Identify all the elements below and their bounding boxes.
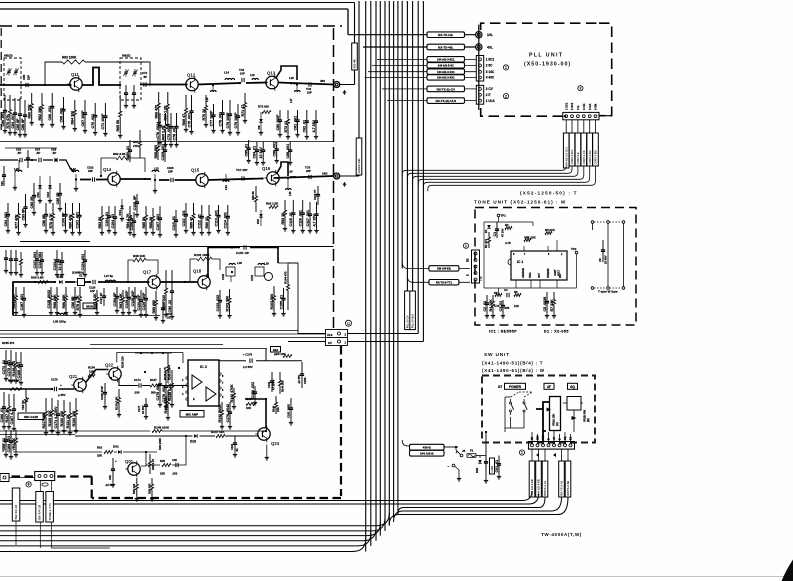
svg-text:.5P: .5P bbox=[52, 151, 56, 155]
svg-text:C115 .01: C115 .01 bbox=[289, 212, 293, 226]
svg-text:RX/TX-2-3B: RX/TX-2-3B bbox=[566, 481, 570, 496]
svg-text:R138 5.6K: R138 5.6K bbox=[168, 383, 172, 401]
svg-text:C01: C01 bbox=[108, 475, 112, 480]
transistor Q16 bbox=[262, 166, 279, 186]
svg-text:+ C178: + C178 bbox=[243, 353, 253, 357]
svg-text:144 A/2-3-8C1: 144 A/2-3-8C1 bbox=[437, 58, 455, 62]
IC3 opamp 1 bbox=[192, 375, 202, 389]
resistor R5 91K bbox=[545, 232, 552, 235]
capacitor row A 9 bbox=[124, 85, 128, 108]
diode DD1 bbox=[478, 460, 482, 463]
svg-text:C1: C1 bbox=[493, 232, 497, 237]
svg-text:6: 6 bbox=[548, 253, 550, 256]
svg-text:C101 .001: C101 .001 bbox=[75, 212, 79, 229]
resistor R91 68 bbox=[255, 186, 258, 212]
wire IC3 out bbox=[221, 387, 245, 406]
svg-text:10K: 10K bbox=[276, 407, 280, 412]
ground 486 bbox=[484, 478, 488, 483]
wire D18 line bbox=[75, 435, 259, 437]
svg-text:.22 50V: .22 50V bbox=[105, 483, 114, 487]
R63 feedback wire bbox=[45, 62, 150, 85]
wire bus vertical 4 bbox=[370, 1, 372, 546]
svg-text:3 E: 3 E bbox=[576, 106, 580, 110]
coil L25 bbox=[286, 189, 292, 190]
wire SW pin down 4 bbox=[561, 449, 563, 461]
svg-text:(B): (B) bbox=[586, 418, 590, 422]
svg-text:R7 33K: R7 33K bbox=[550, 299, 554, 312]
label BE1 box bbox=[271, 347, 281, 353]
test point TP1 bbox=[497, 214, 500, 217]
resistor R83 56 bbox=[98, 206, 104, 235]
wire to PLL pin 1 bbox=[377, 58, 476, 60]
capacitor C110 .01 bbox=[172, 210, 178, 237]
svg-text:C76 .001: C76 .001 bbox=[156, 124, 160, 139]
J5 plus terminal bbox=[460, 454, 463, 457]
SW connector pin 8 bbox=[569, 444, 572, 447]
svg-text:CONT: CONT bbox=[555, 269, 557, 276]
capacitor C84 .01 bbox=[253, 142, 259, 165]
svg-text:C4: C4 bbox=[504, 288, 508, 292]
svg-text:PLL-2-UL8: PLL-2-UL8 bbox=[411, 314, 415, 328]
svg-text:R79 4.7K: R79 4.7K bbox=[76, 295, 80, 311]
svg-text:4.7 25V: 4.7 25V bbox=[312, 120, 316, 133]
coil L16 bbox=[252, 78, 258, 80]
wire bottom bus line 5 bbox=[0, 518, 385, 531]
row B upper wire bbox=[0, 160, 70, 168]
svg-text:R01 2.7K: R01 2.7K bbox=[151, 459, 155, 470]
svg-text:R99 680: R99 680 bbox=[152, 300, 156, 314]
transistor Q21 bbox=[69, 374, 86, 393]
coax jack 14L bbox=[476, 32, 482, 38]
svg-text:Q01: Q01 bbox=[125, 459, 134, 464]
svg-text:10P: 10P bbox=[307, 91, 312, 95]
svg-text:R69 2.7K: R69 2.7K bbox=[161, 125, 165, 141]
svg-text:C2 .01: C2 .01 bbox=[483, 301, 487, 312]
diode D18 bbox=[194, 434, 197, 438]
capacitor C62 .01 bbox=[303, 110, 309, 139]
svg-text:10 16V: 10 16V bbox=[259, 147, 263, 159]
cap C4 .055 bbox=[507, 293, 509, 297]
svg-text:Q15: Q15 bbox=[191, 168, 200, 173]
SW connector pin 5 bbox=[553, 444, 556, 447]
svg-text:Q23: Q23 bbox=[271, 441, 280, 446]
svg-text:C170: C170 bbox=[51, 378, 58, 382]
wire SW label 3 to bus bbox=[398, 497, 545, 514]
wire bottom bus line 2 bbox=[0, 533, 371, 546]
svg-text:R96 39K: R96 39K bbox=[62, 294, 66, 309]
cap C183 .22 35V bbox=[300, 362, 304, 388]
svg-text:C62 .01: C62 .01 bbox=[303, 120, 307, 133]
Q13 collector jog bbox=[276, 66, 298, 80]
resistor R1 272 bbox=[488, 232, 491, 248]
vertical label CONT-1-CK bbox=[581, 133, 587, 166]
vertical label PLL-2-UL8 bbox=[410, 291, 416, 330]
svg-text:CONT-1-5C1: CONT-1-5C1 bbox=[570, 149, 574, 165]
transistor Q12 bbox=[183, 72, 198, 92]
svg-text:J5: J5 bbox=[462, 449, 466, 453]
corner logo blob bbox=[782, 560, 793, 581]
cap C65 22P bbox=[26, 83, 28, 87]
capacitor row A 10 bbox=[132, 85, 136, 108]
PLL bottom pin 3 bbox=[577, 115, 580, 118]
cap C108 18P bbox=[171, 178, 173, 182]
resistor R85 39 bbox=[149, 208, 155, 235]
wire PLL pin 4 down bbox=[583, 120, 585, 133]
left column top cols bbox=[1, 95, 7, 133]
cap TC8 20P bbox=[309, 175, 311, 179]
diode D01 bbox=[118, 450, 121, 454]
svg-text:.5P: .5P bbox=[36, 151, 40, 155]
svg-text:2.2 50V: 2.2 50V bbox=[243, 365, 253, 369]
svg-text:4 43C: 4 43C bbox=[486, 76, 495, 80]
resistor R95 6.8K bbox=[38, 281, 48, 284]
svg-text:C110 .01: C110 .01 bbox=[172, 216, 176, 230]
svg-text:−: − bbox=[448, 465, 450, 469]
svg-text:.033: .033 bbox=[134, 391, 140, 395]
switch link dashed bbox=[511, 392, 520, 397]
row D IC3 cols bbox=[156, 368, 162, 407]
wire CONT-1-DA to bus bbox=[423, 166, 589, 188]
resistor R66 470 bbox=[155, 92, 161, 125]
resistor R2 4.7K bbox=[505, 227, 512, 230]
cap TC7 20P bbox=[242, 176, 244, 180]
pot VR1B box bbox=[567, 397, 581, 411]
resistor R63 100K bbox=[62, 60, 85, 64]
svg-text:C81 .001: C81 .001 bbox=[293, 116, 297, 131]
cap C90 .22 bbox=[168, 270, 174, 319]
svg-text:C83 8P: C83 8P bbox=[21, 208, 25, 221]
svg-text:D9: D9 bbox=[257, 125, 261, 129]
circled 1 tone bbox=[463, 243, 468, 248]
wire PLL pin 6 down bbox=[595, 120, 597, 133]
wire PLL bottom to right corner bbox=[599, 115, 612, 117]
svg-text:Q14: Q14 bbox=[103, 167, 112, 172]
svg-text:R148 220K: R148 220K bbox=[154, 426, 170, 430]
svg-text:L27 8μ: L27 8μ bbox=[104, 274, 113, 278]
svg-text:R144: R144 bbox=[272, 405, 276, 412]
vertical label CONT-1-EN bbox=[593, 133, 599, 166]
label R138 R140 bbox=[167, 353, 170, 383]
svg-text:C166 .01: C166 .01 bbox=[0, 408, 4, 423]
svg-text:12K: 12K bbox=[514, 304, 519, 308]
cap C127 4P bbox=[102, 288, 106, 306]
resistor R73 12 bbox=[284, 110, 290, 139]
wire SW B pin bbox=[485, 432, 487, 447]
wire fuse junction bbox=[479, 456, 481, 459]
connector label 144 A/2-3-43C bbox=[427, 75, 465, 80]
tone connector pin 4 bbox=[474, 272, 477, 275]
vertical label 144 A/2-6-FB bbox=[536, 461, 542, 497]
svg-text:R73 12: R73 12 bbox=[284, 121, 288, 133]
cap C109 bbox=[161, 140, 167, 162]
wire to PLL pin 4 bbox=[365, 77, 477, 79]
capacitor C80 100P bbox=[276, 110, 282, 137]
svg-text:C78 .001: C78 .001 bbox=[218, 112, 222, 127]
tone connector pin 2 bbox=[474, 259, 477, 262]
svg-text:15K: 15K bbox=[160, 472, 165, 476]
resistor R137 560 bbox=[150, 384, 161, 387]
svg-text:C86 .001: C86 .001 bbox=[1, 112, 5, 127]
svg-text:7: 7 bbox=[524, 253, 526, 256]
svg-text:R97 5.6K: R97 5.6K bbox=[93, 293, 97, 309]
svg-text:C104 .01: C104 .01 bbox=[105, 212, 109, 227]
wire conn pin2 down bbox=[51, 481, 53, 492]
tone wires misc bbox=[483, 222, 485, 288]
svg-text:C88 .001: C88 .001 bbox=[286, 144, 290, 159]
svg-text:R85 39: R85 39 bbox=[149, 217, 153, 229]
wire fuse right bbox=[476, 455, 486, 457]
vertical label TONE-1-TT1 bbox=[46, 492, 54, 523]
wire 144 A/2-CO-5C1 to bus bbox=[402, 166, 566, 176]
svg-text:TW-4000A(T,W): TW-4000A(T,W) bbox=[541, 532, 582, 537]
resistor R68 47 bbox=[182, 95, 188, 132]
wire SW label 4 to bus bbox=[394, 497, 562, 522]
svg-text:TP1: TP1 bbox=[501, 214, 507, 218]
svg-text:IC 1: IC 1 bbox=[517, 260, 523, 264]
svg-text:C109 .001: C109 .001 bbox=[161, 144, 165, 161]
row A signal wire bbox=[0, 68, 334, 86]
svg-text:5 DA: 5 DA bbox=[588, 104, 592, 110]
svg-text:20P: 20P bbox=[306, 169, 311, 173]
row C grounds wire bbox=[220, 312, 230, 314]
svg-text:L16: L16 bbox=[250, 73, 255, 77]
SW connector box bbox=[529, 442, 575, 450]
svg-text:IC1 : NE555P: IC1 : NE555P bbox=[489, 330, 517, 334]
svg-text:4.7 25V: 4.7 25V bbox=[312, 214, 316, 227]
cap C181 47 35V bbox=[270, 372, 274, 392]
capacitor C113 .001 bbox=[214, 205, 220, 233]
svg-text:C155 .01: C155 .01 bbox=[279, 295, 283, 310]
vertical label CONT-1-5C1 bbox=[569, 133, 575, 166]
svg-text:18P: 18P bbox=[88, 169, 93, 173]
svg-text:D01: D01 bbox=[113, 445, 119, 449]
pot VR1A box bbox=[550, 397, 561, 431]
svg-text:HB(E): HB(E) bbox=[122, 54, 130, 58]
left column row C extra bbox=[14, 250, 18, 275]
left edge connector bbox=[0, 474, 9, 482]
svg-text:CONT-1-E: CONT-1-E bbox=[576, 152, 580, 164]
svg-text:C124 .001: C124 .001 bbox=[81, 254, 85, 271]
wire to PLL pin 2 bbox=[372, 64, 476, 66]
svg-text:FB: FB bbox=[531, 437, 534, 440]
resistor R143 10K bbox=[246, 403, 256, 406]
svg-text:C114 .001: C114 .001 bbox=[224, 212, 228, 228]
left connector pin 3 bbox=[50, 475, 53, 478]
svg-text:C94 .001: C94 .001 bbox=[4, 212, 8, 227]
tone switch wires bbox=[607, 223, 609, 286]
capacitor C75 .001 bbox=[187, 95, 193, 134]
ground minus bbox=[457, 476, 461, 481]
svg-text:C171 4.7 50V: C171 4.7 50V bbox=[54, 406, 58, 429]
wire L29 to R104 bbox=[278, 262, 288, 264]
svg-text:L35 150μ: L35 150μ bbox=[53, 320, 66, 324]
svg-text:SQ: SQ bbox=[570, 385, 575, 389]
SW connector pin 1 bbox=[531, 444, 534, 447]
cap C01 bbox=[111, 458, 115, 487]
power switch S7a bbox=[510, 399, 514, 415]
svg-text:R141 560K: R141 560K bbox=[218, 404, 222, 423]
resistor R8 4.7K bbox=[495, 294, 502, 297]
svg-text:R98 10K: R98 10K bbox=[133, 254, 146, 258]
svg-text:18K: 18K bbox=[97, 454, 102, 458]
svg-text:4 CK: 4 CK bbox=[582, 104, 586, 110]
coil L22 bbox=[72, 170, 79, 172]
svg-text:R5 91K: R5 91K bbox=[545, 228, 556, 232]
resistor R60 22K bbox=[28, 93, 34, 125]
capacitor C107 .001 bbox=[156, 206, 162, 237]
svg-text:C107 .001: C107 .001 bbox=[156, 214, 160, 231]
PLL pin 3 circle bbox=[479, 88, 482, 91]
wire SW pin down 3 bbox=[544, 449, 546, 461]
crystal X1 bbox=[78, 279, 85, 286]
resistor R69 2.7K bbox=[161, 113, 167, 147]
cap C128 20P bbox=[131, 287, 137, 313]
rail y353 bbox=[135, 352, 172, 354]
svg-text:27K: 27K bbox=[133, 144, 139, 148]
svg-text:47 10V: 47 10V bbox=[501, 228, 505, 237]
transistor Q15 bbox=[191, 168, 208, 189]
resistor R70 22 bbox=[202, 95, 208, 127]
resistor R7 33K bbox=[550, 292, 556, 318]
PLL unit border bottom-left bbox=[481, 108, 563, 116]
svg-text:VOLT: VOLT bbox=[559, 269, 561, 276]
svg-text:144 A/2-6-FB: 144 A/2-6-FB bbox=[537, 479, 541, 495]
cap C170 bbox=[54, 387, 56, 391]
PLL bottom pin 2 bbox=[571, 115, 574, 118]
wire bus vertical 9 bbox=[393, 1, 395, 504]
svg-text:R89 47: R89 47 bbox=[189, 217, 193, 229]
capacitor C112 .01 bbox=[198, 205, 204, 235]
coax jack 43L bbox=[476, 44, 482, 50]
cap C184 .01 bbox=[233, 436, 237, 457]
arrow into VR1A bbox=[547, 408, 552, 412]
svg-text:.22 35V: .22 35V bbox=[297, 375, 301, 384]
wire bundle to 430-B bbox=[402, 440, 409, 446]
wire bus vertical 12 bbox=[406, 1, 408, 291]
svg-text:R4 12K: R4 12K bbox=[489, 299, 493, 312]
wire SW A/4-EB bbox=[402, 262, 470, 269]
connector label RX-TX-(1)-UL8 bbox=[427, 98, 465, 104]
cap C177 10 16V bbox=[144, 398, 148, 414]
tone switch terminals top bbox=[591, 221, 594, 224]
svg-text:C172 .01: C172 .01 bbox=[2, 360, 6, 375]
resistor R99 680 bbox=[152, 291, 158, 320]
svg-text:L28: L28 bbox=[237, 261, 242, 265]
cap C129 150P bbox=[125, 287, 131, 315]
diode D16 bbox=[59, 280, 62, 284]
pot VR2 5K bbox=[25, 389, 28, 412]
cap C133 .032 bbox=[216, 290, 222, 318]
svg-text:R98 39K: R98 39K bbox=[53, 294, 57, 309]
svg-text:MIC: MIC bbox=[537, 435, 540, 440]
svg-text:9: 9 bbox=[28, 483, 30, 487]
circled 3 bbox=[578, 86, 583, 91]
resistor R82 3.3K loop bbox=[101, 158, 145, 175]
svg-text:VR1 20K: VR1 20K bbox=[524, 236, 537, 240]
vertical label CONT-1-DA bbox=[587, 133, 593, 166]
svg-text:R145 10K: R145 10K bbox=[281, 380, 285, 392]
AF box bbox=[544, 383, 554, 389]
svg-text:RX-TX-2-A3: RX-TX-2-A3 bbox=[560, 480, 564, 495]
wire bus vertical 14 bbox=[417, 1, 419, 334]
pot VR1 20K bbox=[524, 239, 531, 242]
PLL board edge line bbox=[478, 25, 480, 110]
transistor Q01 bbox=[125, 459, 140, 477]
svg-text:R04 100K: R04 100K bbox=[158, 438, 162, 450]
svg-text:144 A/2-B: 144 A/2-B bbox=[420, 452, 434, 456]
transistor Q11 bbox=[67, 72, 82, 92]
ellipse under conn bbox=[42, 483, 48, 486]
svg-text:DD1: DD1 bbox=[475, 467, 479, 473]
cap C174 .033 bbox=[139, 383, 141, 387]
svg-text:144 A/2-CO-5C1: 144 A/2-CO-5C1 bbox=[564, 147, 568, 167]
svg-text:μ 35V: μ 35V bbox=[58, 393, 66, 397]
svg-text:R77 47K: R77 47K bbox=[14, 214, 18, 229]
fuse F1 bbox=[467, 454, 476, 458]
wire 430-B right bbox=[444, 446, 458, 448]
svg-text:1 8C1: 1 8C1 bbox=[486, 58, 495, 62]
resistor R82 3.3K bbox=[116, 156, 130, 160]
tone bottom rail bbox=[484, 287, 577, 289]
wire bus vertical 15 bbox=[422, 1, 424, 342]
svg-text:C154 .5P: C154 .5P bbox=[236, 251, 249, 255]
resistor R135 5.6K bbox=[118, 389, 121, 412]
vertical label PLL-2-CV bbox=[405, 291, 411, 330]
svg-text:1: 1 bbox=[505, 66, 507, 70]
svg-text:S7: S7 bbox=[498, 385, 502, 389]
svg-text:SW A/4-EB: SW A/4-EB bbox=[437, 267, 451, 271]
svg-text:2: 2 bbox=[505, 94, 507, 98]
svg-text:(A): (A) bbox=[555, 422, 559, 426]
row C thick top wire bbox=[208, 248, 278, 277]
cap C right of DD1 bbox=[484, 456, 488, 471]
svg-text:SW A/4-1B: SW A/4-1B bbox=[38, 504, 42, 520]
capacitor C115 .01 bbox=[289, 200, 295, 233]
svg-text:C128 20P: C128 20P bbox=[131, 290, 135, 307]
svg-text:R83 56: R83 56 bbox=[98, 217, 102, 229]
scan edge line bbox=[0, 576, 790, 578]
resistor R148 220K bbox=[152, 430, 162, 433]
cap C180 bbox=[126, 140, 132, 162]
PLL connector J1 box bbox=[476, 56, 483, 82]
resistor R77 47K bbox=[14, 203, 20, 235]
diode D14 bbox=[121, 199, 123, 216]
capacitor 10 16V bbox=[259, 142, 265, 165]
svg-text:4.7K: 4.7K bbox=[505, 241, 511, 245]
svg-text:L24: L24 bbox=[224, 185, 228, 190]
cap C182 .0082 bbox=[289, 398, 293, 420]
svg-text:RX-TX-9-TT1: RX-TX-9-TT1 bbox=[436, 281, 453, 285]
svg-text:L22: L22 bbox=[71, 167, 76, 171]
svg-text:Q21: Q21 bbox=[69, 374, 78, 379]
svg-text:L18: L18 bbox=[289, 76, 294, 80]
svg-text:10K: 10K bbox=[246, 406, 251, 410]
vertical label 144 A/2-4-FB bbox=[529, 461, 535, 497]
svg-text:C192 8P: C192 8P bbox=[113, 292, 117, 307]
cap C02 .033 bbox=[176, 463, 178, 467]
cap C5 .0039 bbox=[543, 292, 549, 318]
transistor Q22 bbox=[105, 363, 121, 383]
left connector pin 1 bbox=[38, 475, 41, 478]
wire RX-TX-11-CV bbox=[382, 88, 476, 90]
svg-text:R60 22K: R60 22K bbox=[28, 104, 32, 119]
resistor R97 5.6K bbox=[119, 290, 125, 315]
svg-text:F1: F1 bbox=[470, 449, 474, 453]
svg-text:R6: R6 bbox=[514, 290, 518, 294]
wire to UL8 pin bbox=[298, 333, 326, 335]
capacitor C86 .001 bbox=[273, 142, 279, 163]
resistor R6 12K bbox=[514, 294, 521, 297]
